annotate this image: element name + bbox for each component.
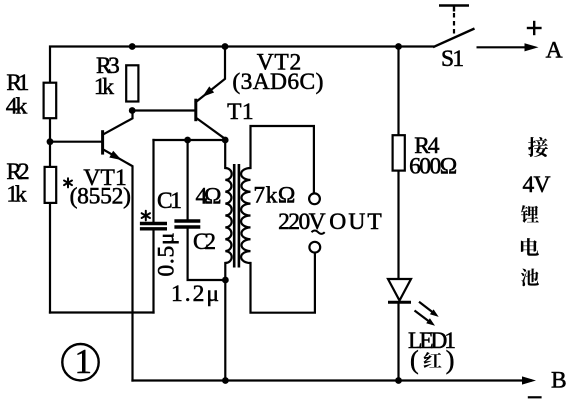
svg-text:S1: S1 xyxy=(441,46,464,72)
LED1 diode xyxy=(388,279,411,302)
svg-text:OUT: OUT xyxy=(329,209,381,235)
label minus xyxy=(528,396,542,398)
wire R4 column top xyxy=(397,47,399,136)
transformer T1 primary winding xyxy=(225,168,231,263)
terminal B arrow xyxy=(522,376,536,384)
wire C-node horizontal xyxy=(154,139,226,141)
resistor R3 xyxy=(126,65,138,101)
output terminal upper xyxy=(309,193,320,204)
label plus xyxy=(527,21,542,35)
svg-text:600Ω: 600Ω xyxy=(409,154,457,180)
wire C2 top lead xyxy=(187,140,189,220)
wire transformer primary bottom xyxy=(224,263,226,381)
svg-text:C1: C1 xyxy=(157,188,182,214)
wire C1 top lead xyxy=(152,140,154,222)
resistor R4 xyxy=(393,135,405,170)
wire VT1 emitter down xyxy=(103,150,132,381)
svg-text:R1: R1 xyxy=(6,70,29,96)
transformer T1 secondary winding xyxy=(241,168,250,263)
label VT1 star xyxy=(64,178,72,187)
transistor VT2 xyxy=(196,86,225,138)
wire secondary loop xyxy=(251,126,314,193)
wire bottom-left link xyxy=(50,311,154,313)
svg-text:4Ω: 4Ω xyxy=(196,184,222,210)
wire C1 bottom lead xyxy=(152,230,154,312)
svg-text:(: ( xyxy=(410,346,419,375)
resistor R2 xyxy=(45,167,57,203)
svg-text:1k: 1k xyxy=(6,182,27,208)
switch S1 xyxy=(433,6,475,48)
svg-text:1: 1 xyxy=(75,342,93,381)
wire VT2 emitter riser xyxy=(196,47,225,103)
svg-text:): ) xyxy=(446,346,455,375)
wire top rail xyxy=(50,47,433,313)
svg-text:(3AD6C): (3AD6C) xyxy=(232,69,323,95)
figure number 1 circled xyxy=(62,342,98,381)
wire VT1 base xyxy=(50,141,102,143)
capacitor C1 plates xyxy=(140,224,167,229)
wire transformer primary top xyxy=(224,140,226,168)
capacitor C2 plates xyxy=(174,221,200,227)
svg-text:7kΩ: 7kΩ xyxy=(253,183,295,209)
transformer T1 core xyxy=(234,164,239,268)
transistor VT1 xyxy=(103,130,122,160)
svg-text:4k: 4k xyxy=(6,94,28,120)
wire secondary lower loop xyxy=(251,253,315,313)
wire C2 bottom lead xyxy=(188,228,226,280)
output terminal lower xyxy=(309,242,320,253)
svg-text:4V: 4V xyxy=(523,172,551,198)
label battery note char li xyxy=(521,205,539,223)
svg-text:B: B xyxy=(551,367,567,393)
label battery note char chi xyxy=(521,268,539,286)
terminal A wire and arrow xyxy=(477,43,539,51)
svg-text:1k: 1k xyxy=(94,74,114,100)
svg-text:C2: C2 xyxy=(193,229,216,255)
label battery note char jie xyxy=(528,137,548,157)
resistor R1 xyxy=(44,83,57,119)
LED1 emission arrows xyxy=(415,302,439,326)
svg-text:0.5μ: 0.5μ xyxy=(154,233,180,277)
wire bottom rail xyxy=(133,379,532,381)
svg-text:220V: 220V xyxy=(278,209,326,235)
wire VT1 collector riser xyxy=(103,111,132,135)
label LED1 color char hong xyxy=(423,352,441,368)
label battery note char dian xyxy=(521,238,539,256)
label 220V tilde xyxy=(312,231,325,234)
svg-text:T1: T1 xyxy=(227,99,254,125)
svg-text:A: A xyxy=(546,38,563,64)
wire R4 to LED xyxy=(397,171,399,280)
wire LED to bottom rail xyxy=(397,304,399,381)
wire R3 to VT2 base xyxy=(132,109,196,111)
label C1 star xyxy=(142,211,150,221)
svg-text:1.2μ: 1.2μ xyxy=(171,281,219,307)
svg-text:(8552): (8552) xyxy=(70,184,131,210)
